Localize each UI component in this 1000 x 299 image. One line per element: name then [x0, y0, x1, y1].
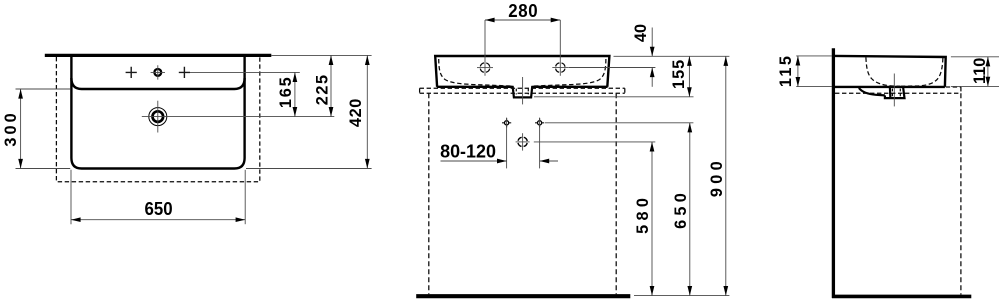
floor line front — [416, 294, 630, 298]
extension lines 300 — [16, 89, 71, 169]
basin outline top view — [71, 56, 244, 169]
extension line siphon right — [534, 141, 656, 143]
dimension 155 — [670, 56, 692, 97]
plus mark right — [179, 67, 190, 78]
svg-text:580: 580 — [634, 194, 652, 234]
bowl back edge — [71, 78, 244, 89]
dimension 225 — [313, 55, 333, 116]
svg-text:165: 165 — [277, 76, 295, 109]
bowl hidden contour front — [439, 59, 606, 86]
svg-text:110: 110 — [971, 58, 989, 84]
hidden mounting plate side — [835, 87, 961, 93]
wall line side — [832, 48, 835, 298]
svg-text:650: 650 — [145, 198, 173, 219]
dimension 165 — [277, 72, 297, 116]
basin outline side — [835, 56, 946, 87]
svg-text:300: 300 — [2, 110, 20, 146]
extension line screws right — [545, 122, 693, 124]
drain — [149, 101, 167, 133]
dimension 580 — [634, 142, 655, 296]
extension line tap hole right — [569, 67, 656, 69]
dimension 300 — [2, 89, 23, 169]
dimension 650 front — [672, 123, 692, 296]
tap hole hidden left — [477, 63, 493, 73]
siphon outlet crosshair — [516, 133, 530, 150]
svg-text:225: 225 — [313, 73, 331, 105]
tap hole hidden right — [552, 63, 568, 73]
svg-text:115: 115 — [777, 54, 795, 87]
extension line drainbox bottom right — [534, 96, 694, 98]
floor line side — [832, 295, 971, 299]
dimension 900 — [708, 56, 728, 295]
hidden mounting plate front — [420, 88, 625, 93]
extension line drain right — [142, 116, 334, 118]
extension line basin top right — [614, 55, 730, 57]
svg-text:80-120: 80-120 — [440, 141, 496, 161]
dimension 420 — [347, 55, 370, 168]
wall line — [45, 54, 271, 57]
dimension 650 top view — [71, 170, 245, 224]
dimension 115 — [777, 54, 832, 87]
extension line floor right — [634, 295, 729, 297]
dashed accessory rectangle — [56, 57, 259, 182]
bowl hidden contour side — [866, 57, 943, 86]
svg-text:40: 40 — [632, 24, 650, 42]
basin outline front — [435, 56, 609, 87]
plus mark left — [126, 67, 137, 78]
screw mark right — [535, 118, 544, 127]
svg-text:280: 280 — [508, 0, 538, 21]
svg-text:155: 155 — [670, 59, 688, 89]
screw mark left — [502, 118, 511, 127]
svg-text:420: 420 — [347, 98, 365, 127]
extension line tap holes right — [190, 71, 300, 73]
extension line front right — [246, 168, 372, 170]
extension line wall right — [271, 54, 371, 56]
hidden cabinet sides front — [429, 93, 616, 294]
svg-text:900: 900 — [708, 157, 726, 197]
dimension 280 — [485, 0, 560, 76]
drain box front — [513, 77, 533, 104]
tap hole — [151, 65, 165, 79]
dimension 40 — [632, 24, 655, 87]
hidden cabinet side — [960, 93, 962, 294]
drain trough side — [859, 74, 905, 107]
dimension 80-120 — [440, 118, 558, 169]
dimension 110 — [951, 57, 999, 87]
svg-text:650: 650 — [672, 189, 690, 229]
